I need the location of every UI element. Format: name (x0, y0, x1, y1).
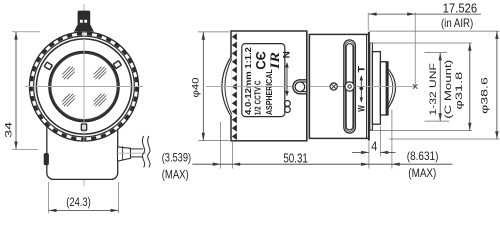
svg-text:N: N (281, 51, 291, 58)
front ring mask (29, 31, 140, 142)
zoom lever slot outer (344, 40, 356, 133)
cable centerline (116, 152, 146, 154)
ring slot upper left (44, 62, 52, 70)
dim ext front dome vertex (220, 122, 222, 169)
svg-text:(MAX): (MAX) (408, 166, 436, 180)
svg-text:φ31.8: φ31.8 (454, 72, 465, 110)
lens label box (242, 44, 285, 117)
glass hatch lower-left (62, 94, 70, 102)
zoom set screw (330, 83, 337, 90)
side view main barrel section 1 (231, 31, 307, 141)
zoom lever slot middle (345, 42, 354, 132)
svg-text:T: T (356, 65, 366, 72)
dim bottom row line (192, 163, 452, 165)
ring slot bottom (81, 124, 86, 130)
section 1 right edge double line (306, 31, 308, 141)
dim ext flange back (379, 126, 381, 157)
dim 24.3 extension lines (48, 182, 50, 213)
dim phi386 line (496, 31, 498, 139)
glass hatch upper-left (62, 67, 70, 75)
side view horizontal centerline left (206, 86, 300, 88)
zoom lever slot inner (346, 44, 353, 130)
dim 34 line (15, 32, 17, 150)
front view vertical centerline (83, 4, 85, 186)
cable gland cone (118, 147, 131, 161)
svg-text:1-32 UNF: 1-32 UNF (428, 63, 439, 115)
outer ring circle (29, 32, 138, 141)
glass bezel circle (49, 52, 118, 121)
glass hatch lower-right (94, 94, 102, 102)
side view zoom ring section 2 (309, 34, 369, 138)
ring circle B (36, 39, 131, 134)
cable wires (131, 148, 144, 150)
side view horizontal centerline mid (310, 86, 344, 88)
dim phi318 extension lines (369, 42, 472, 44)
front view horizontal centerline (25, 86, 143, 88)
svg-text:34: 34 (4, 121, 15, 138)
glass hatch upper-right (94, 67, 102, 75)
image plane mark (413, 84, 418, 89)
dim unf extension lines (425, 52, 448, 54)
ring circle A (34, 36, 135, 137)
svg-text:(3.539): (3.539) (162, 151, 191, 165)
section 2 rear thick edge (366, 34, 368, 138)
cable break curve 2 (148, 136, 150, 167)
svg-text:4: 4 (371, 139, 377, 153)
focus indicator arrow (286, 63, 288, 96)
svg-text:(C Mount): (C Mount) (443, 60, 454, 119)
cable break curve 1 (142, 136, 144, 167)
front view vertical centerline overlay (83, 32, 85, 142)
dim 17.526 line (369, 13, 481, 15)
marking W-T arrow (360, 76, 362, 102)
front view base left tab (44, 153, 49, 165)
dim 17.526 extension left (367, 13, 369, 31)
dim 17.526 extension right (414, 13, 416, 87)
dim 34 extension line top (12, 31, 40, 33)
svg-text:(8.631): (8.631) (407, 149, 439, 163)
dim ext rear vertex (391, 110, 393, 169)
mount flange (372, 52, 380, 125)
focus thumbscrew lever inner (295, 82, 307, 92)
c-mount thread barrel (380, 62, 388, 115)
dim phi40 line (202, 32, 204, 141)
svg-text:φ38.6: φ38.6 (480, 77, 491, 114)
dim 4 line (352, 151, 369, 153)
svg-text:(24.3): (24.3) (66, 195, 91, 209)
knurl tick band (31, 34, 137, 140)
front view mount base body (47, 118, 118, 179)
ring slot upper right (113, 61, 121, 69)
front element dome inner arc (225, 59, 232, 115)
svg-text:ASPHERICAL: ASPHERICAL (265, 69, 274, 115)
side view horizontal centerline right (355, 86, 414, 88)
top knob base trapezoid (74, 24, 94, 31)
rear lens element (387, 69, 389, 108)
top thumbscrew knob (78, 11, 91, 26)
front element dome outer arc (222, 56, 232, 118)
svg-text:17.526: 17.526 (443, 0, 478, 15)
front face knurl serrations (232, 33, 237, 140)
dim ext flange face (368, 142, 370, 169)
dim phi40 extension lines (198, 31, 230, 33)
focus thumbscrew lever outer (293, 80, 307, 94)
rear step ring (370, 43, 373, 130)
svg-text:(in AIR): (in AIR) (441, 16, 473, 30)
svg-text:φ40: φ40 (191, 78, 202, 98)
dim phi318 line (469, 43, 471, 131)
zoom lever knob (345, 82, 354, 91)
dim unf line (439, 53, 441, 122)
dim 24.3 line (49, 209, 119, 211)
svg-text:50.31: 50.31 (283, 151, 308, 165)
dim ext front face (231, 142, 233, 169)
dim phi386 extension lines (369, 30, 500, 32)
svg-text:W: W (356, 105, 366, 112)
svg-text:1/2 CCTV C: 1/2 CCTV C (252, 81, 262, 116)
c-mount thread rear dark edge (386, 62, 388, 114)
dim 34 extension line bottom (12, 148, 38, 150)
glass inner circle (51, 54, 117, 120)
svg-text:IR: IR (267, 52, 282, 71)
svg-text:(MAX): (MAX) (162, 168, 189, 182)
focus indicator infinity symbol (285, 101, 291, 107)
focus thumbscrew head (295, 82, 305, 92)
